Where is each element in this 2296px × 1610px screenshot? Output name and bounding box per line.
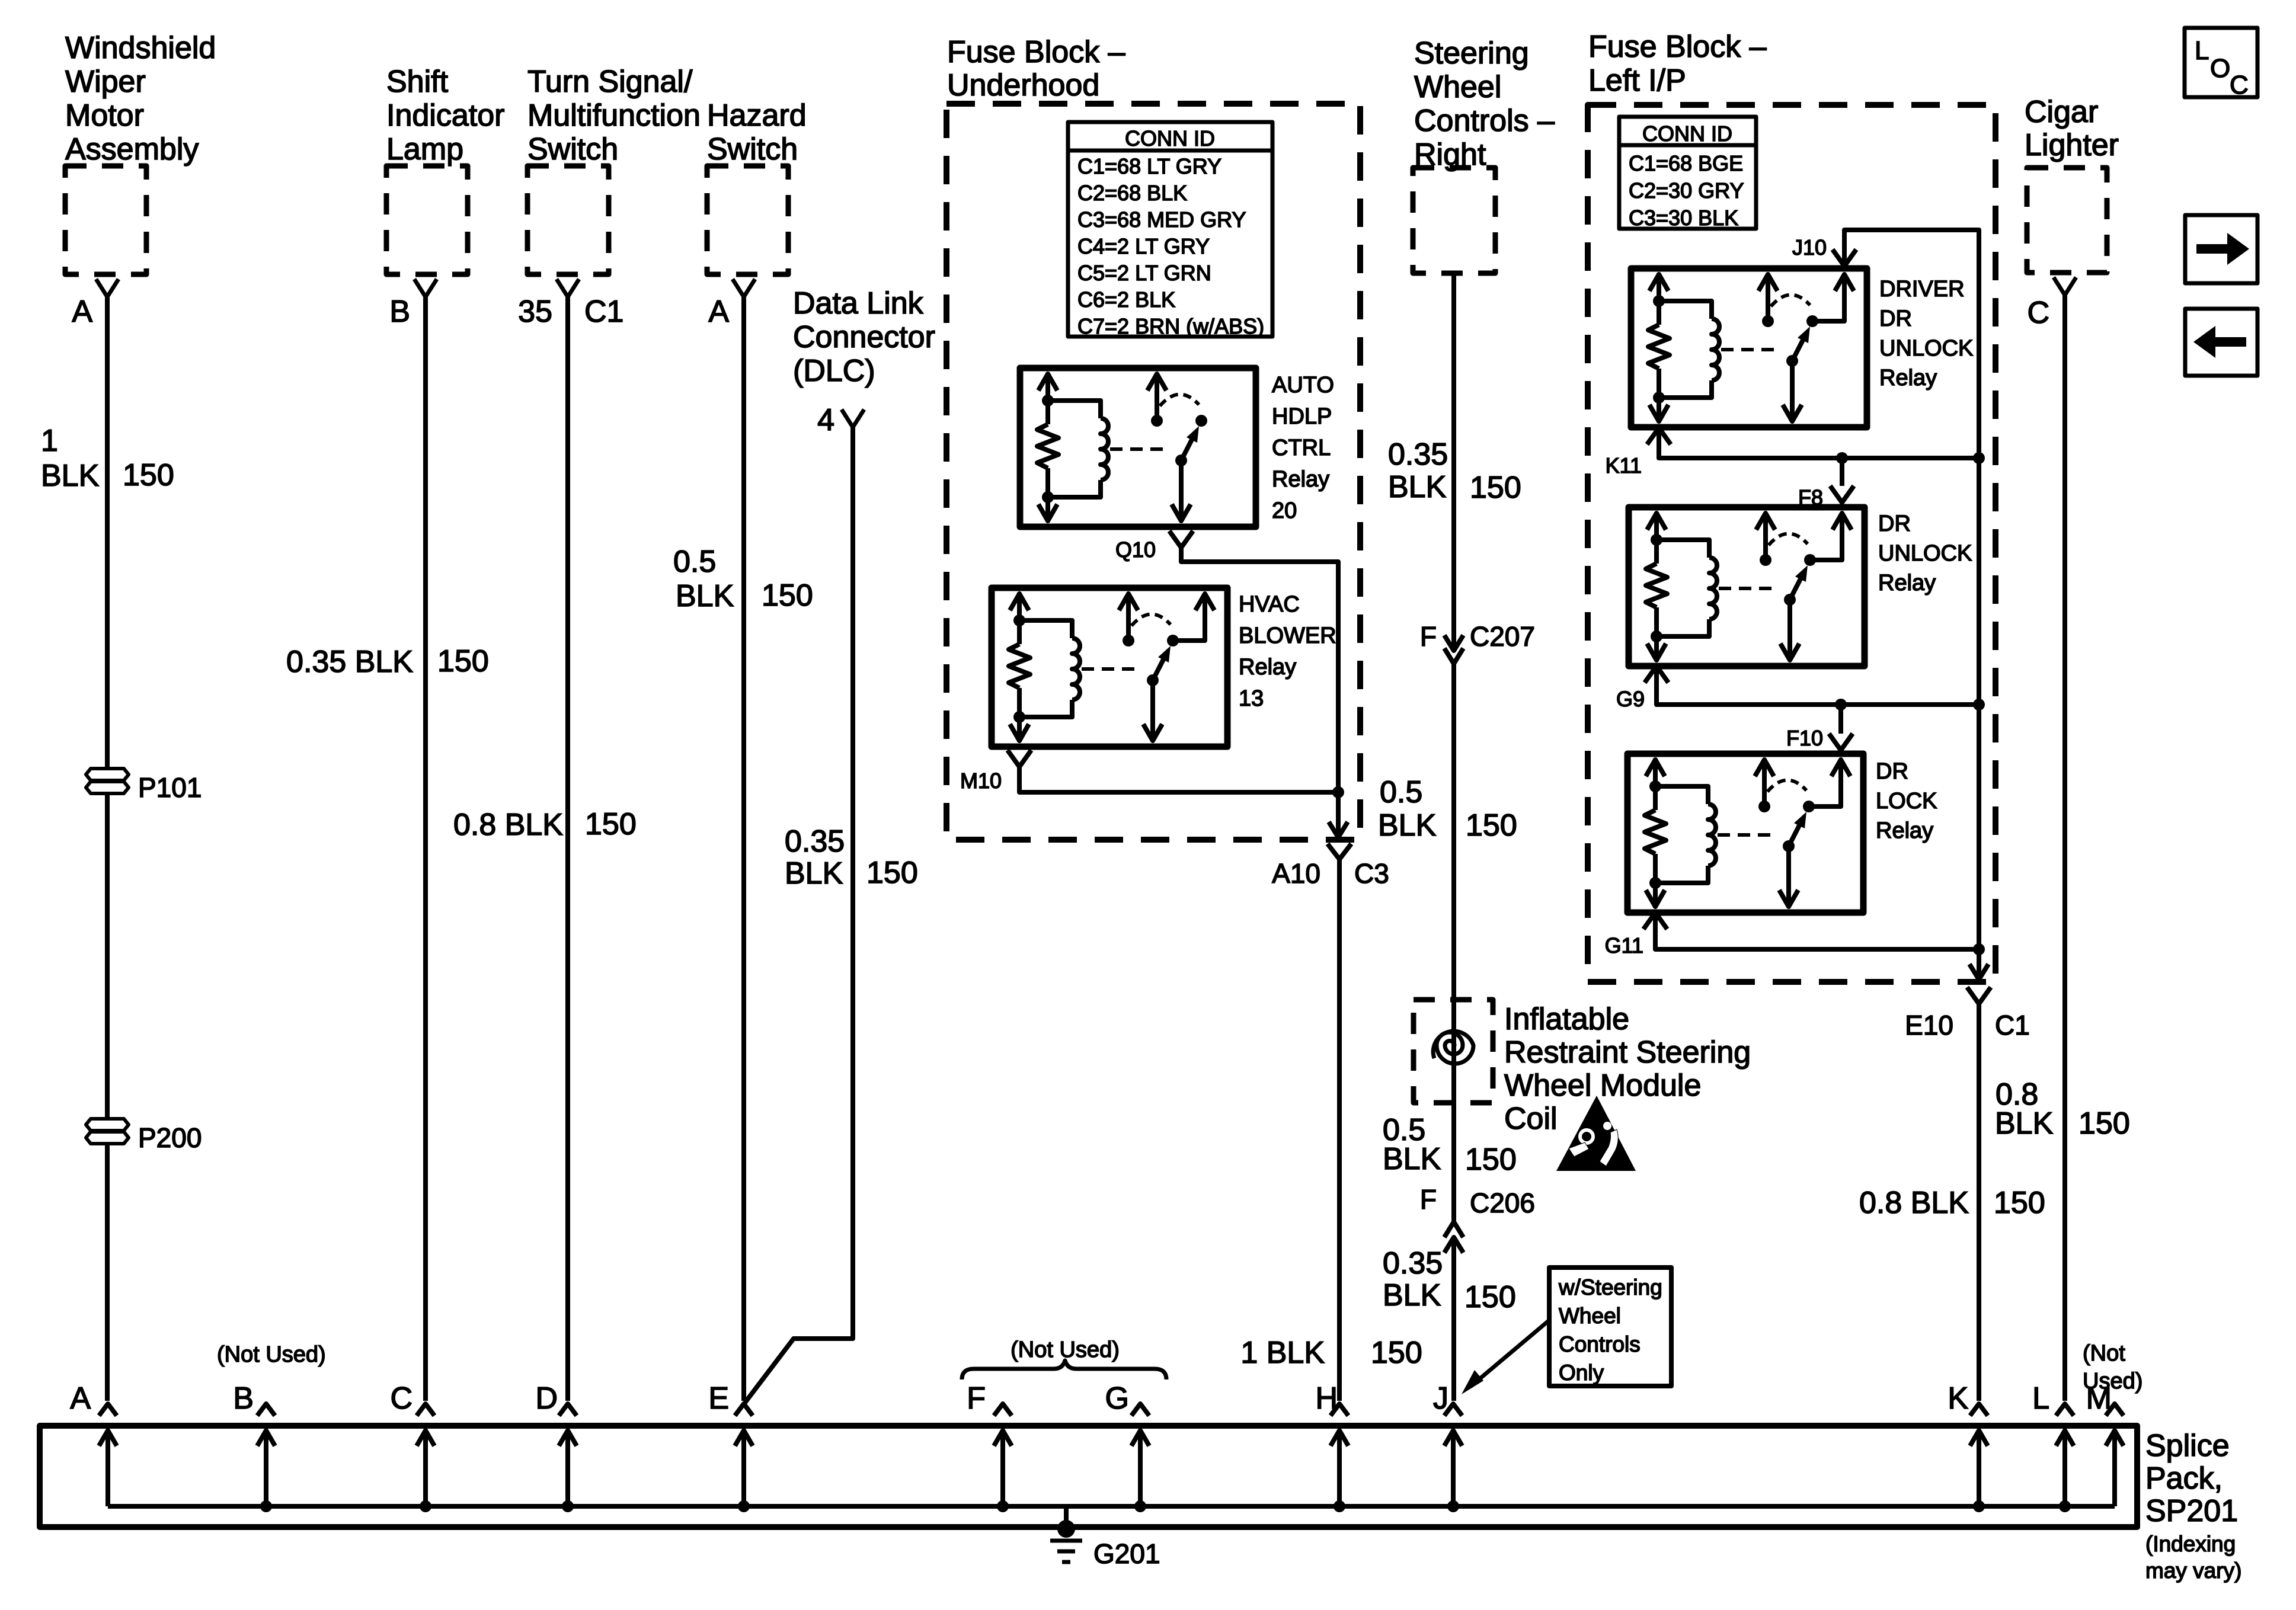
splice terminal J [1444,1404,1462,1416]
svg-text:150: 150 [1464,1280,1516,1314]
svg-text:13: 13 [1239,686,1264,711]
wire M10 to junction [1019,767,1338,792]
svg-text:Used): Used) [2083,1369,2142,1394]
svg-text:C1=68 LT GRY: C1=68 LT GRY [1077,154,1221,178]
svg-text:CONN ID: CONN ID [1125,126,1215,151]
svg-text:Wiper: Wiper [65,65,146,99]
svg-text:Wheel Module: Wheel Module [1504,1068,1701,1103]
connector F C207 [1444,635,1463,651]
svg-text:Inflatable: Inflatable [1504,1002,1629,1036]
wire J lower segment [1451,1237,1456,1401]
svg-text:F: F [1420,1184,1437,1215]
svg-text:C3=30 BLK: C3=30 BLK [1629,206,1738,230]
svg-text:Relay: Relay [1239,655,1296,680]
svg-text:1 BLK: 1 BLK [1240,1336,1325,1370]
svg-text:BLK: BLK [1388,470,1447,504]
connector F10 [1838,705,1843,734]
svg-text:150: 150 [1465,1142,1517,1177]
svg-text:Windshield: Windshield [65,31,216,65]
pin C (cigar) [2054,277,2076,295]
pointer arrow to wire J [1470,1320,1549,1387]
svg-text:may vary): may vary) [2145,1558,2241,1583]
svg-text:(DLC): (DLC) [793,354,875,388]
splice terminal D [559,1404,577,1416]
ground G201 [1064,1506,1069,1523]
connector Q10 [1169,531,1193,548]
connector K11 [1647,428,1671,444]
wire J upper segment [1451,273,1456,649]
connector A10 C3 [1328,844,1351,859]
svg-text:C207: C207 [1470,621,1535,652]
right arrow box [2185,215,2257,283]
svg-text:Relay: Relay [1878,571,1936,596]
svg-text:C1=68 BGE: C1=68 BGE [1629,151,1743,175]
splice pack bus wire [108,1504,2115,1509]
shift indicator lamp box [386,166,468,274]
svg-text:C1: C1 [584,295,623,329]
wire G11 to bus [1655,914,1979,949]
splice terminal M [2106,1404,2124,1416]
svg-text:Q10: Q10 [1115,537,1156,562]
splice terminal L [2056,1404,2074,1416]
svg-text:1: 1 [41,424,58,458]
svg-text:150: 150 [585,807,637,841]
wire J second segment [1451,664,1456,1221]
svg-text:Pack,: Pack, [2145,1461,2223,1496]
svg-text:K11: K11 [1606,453,1642,478]
svg-text:HDLP: HDLP [1272,404,1332,429]
relay: DRIVER DR UNLOCK Relay [1631,268,1867,427]
svg-text:150: 150 [1994,1186,2045,1220]
svg-text:P200: P200 [138,1122,202,1153]
svg-text:150: 150 [866,856,918,890]
svg-text:150: 150 [123,458,174,492]
svg-text:F: F [1420,621,1437,652]
svg-text:M10: M10 [960,769,1002,793]
pin A (hazard) [733,279,755,297]
svg-text:Relay: Relay [1879,366,1937,391]
inline connector P101 [86,769,129,793]
wire to A10 exit [1336,792,1341,837]
svg-text:(Indexing: (Indexing [2145,1532,2236,1556]
wire Q10 to internal node [1181,548,1338,792]
svg-text:4: 4 [817,403,834,437]
svg-text:J: J [1433,1381,1448,1416]
svg-text:Turn Signal/: Turn Signal/ [527,65,693,99]
svg-text:UNLOCK: UNLOCK [1879,336,1973,361]
connector J10 [1833,249,1856,266]
svg-text:DR: DR [1878,511,1911,536]
svg-text:F: F [967,1381,986,1416]
svg-text:DR: DR [1876,759,1908,784]
svg-text:Cigar: Cigar [2025,95,2098,129]
svg-text:Steering: Steering [1414,36,1529,71]
svg-text:K: K [1948,1381,1968,1416]
svg-text:C4=2 LT GRY: C4=2 LT GRY [1077,234,1210,258]
svg-text:D: D [535,1381,558,1416]
cigar lighter box [2027,168,2107,273]
svg-text:Switch: Switch [527,132,618,167]
wire L : cigar to splice L [2062,293,2067,1401]
svg-text:A: A [72,295,92,329]
svg-text:J10: J10 [1792,235,1827,260]
connector F8 [1840,458,1844,486]
svg-text:150: 150 [2078,1106,2130,1141]
fuse block left IP dashed box [1588,105,1996,982]
LOC index box [2185,28,2257,97]
relay: DR UNLOCK Relay [1629,507,1865,666]
svg-text:Restraint Steering: Restraint Steering [1504,1035,1751,1070]
svg-text:G: G [1105,1381,1129,1416]
fuse block underhood dashed box [946,104,1360,840]
svg-text:Shift: Shift [386,65,449,99]
pin A (wiper) [96,279,119,297]
svg-text:BLK: BLK [785,856,843,891]
svg-text:Switch: Switch [707,132,798,167]
svg-text:AUTO: AUTO [1272,373,1334,398]
svg-text:B: B [233,1381,254,1416]
wire J10 to right bus [1844,230,1979,977]
splice terminal A [99,1404,117,1416]
svg-text:Controls –: Controls – [1414,104,1555,138]
svg-text:DRIVER: DRIVER [1879,277,1965,302]
svg-text:O: O [2210,54,2230,83]
splice terminal G [1131,1404,1149,1416]
svg-text:0.5: 0.5 [673,545,716,579]
svg-text:C6=2 BLK: C6=2 BLK [1077,287,1175,312]
wire B : shift to splice C [423,295,428,1401]
svg-text:Left I/P: Left I/P [1588,63,1686,98]
svg-text:0.8 BLK: 0.8 BLK [1859,1186,1969,1220]
svg-text:C1: C1 [1995,1010,2030,1041]
svg-text:G201: G201 [1093,1538,1160,1569]
svg-text:Connector: Connector [793,320,935,354]
wire A : wiper to splice A [105,295,110,1401]
svg-text:DR: DR [1879,306,1912,331]
splice pack SP201 box [40,1426,2137,1527]
svg-text:20: 20 [1272,498,1297,523]
connector G9 [1645,666,1668,683]
wire DLC : dlc down, jog left into splice E [745,425,853,1403]
svg-text:L: L [2195,36,2209,65]
svg-text:P101: P101 [138,772,202,803]
pin B (shift) [414,279,437,297]
svg-text:BLK: BLK [1378,808,1437,843]
svg-text:BLK: BLK [676,579,734,613]
wire E : hazard to splice E [741,295,746,1401]
left arrow box [2185,309,2257,376]
connector M10 [1008,750,1031,767]
windshield wiper motor assembly box [65,166,146,274]
svg-text:(Not Used): (Not Used) [217,1342,326,1367]
svg-text:SP201: SP201 [2145,1494,2238,1528]
svg-text:HVAC: HVAC [1239,592,1300,617]
svg-text:Motor: Motor [65,98,144,133]
splice terminal B [257,1404,275,1416]
svg-text:Indicator: Indicator [386,98,504,133]
svg-text:CTRL: CTRL [1272,436,1331,460]
coil spiral symbol [1433,1031,1473,1064]
conn id table (left IP) [1619,117,1756,229]
svg-text:Lamp: Lamp [386,132,463,167]
svg-text:BLK: BLK [1995,1106,2054,1141]
svg-text:H: H [1315,1381,1338,1416]
wire H : A10 to splice H [1337,859,1342,1401]
svg-text:Coil: Coil [1504,1102,1558,1136]
svg-text:C3: C3 [1354,858,1389,889]
svg-text:Wheel: Wheel [1559,1304,1621,1328]
relay: HVAC BLOWER Relay 13 [992,588,1227,747]
svg-text:(Not: (Not [2083,1341,2125,1366]
wire K11 to bus [1659,429,1979,458]
hazard switch box [707,166,788,274]
svg-text:35: 35 [518,295,552,329]
exit arrow at left IP border [1969,964,1988,980]
svg-text:BLK: BLK [1383,1278,1441,1313]
svg-text:C: C [2027,296,2049,330]
splice terminal H [1331,1404,1348,1416]
svg-text:150: 150 [1371,1336,1422,1370]
svg-text:150: 150 [1466,808,1517,843]
svg-text:Wheel: Wheel [1414,70,1501,104]
svg-text:BLK: BLK [41,459,100,493]
pin 4 (DLC) [842,409,864,427]
splice terminal E [735,1404,753,1416]
svg-text:w/Steering: w/Steering [1558,1275,1662,1299]
svg-text:A: A [70,1381,91,1416]
relay: AUTO HDLP CTRL Relay 20 [1020,368,1256,527]
svg-text:150: 150 [437,644,489,678]
connector F C206 [1444,1222,1463,1237]
svg-text:C2=30 GRY: C2=30 GRY [1629,178,1744,203]
svg-text:Relay: Relay [1272,467,1329,492]
svg-text:B: B [389,295,410,329]
inline connector P200 [86,1119,129,1144]
svg-text:C: C [390,1381,412,1416]
airbag warning triangle [1556,1096,1636,1171]
conn id table (underhood) [1068,122,1272,337]
svg-text:Assembly: Assembly [65,132,199,167]
svg-text:150: 150 [762,578,813,613]
svg-text:Lighter: Lighter [2025,128,2119,162]
svg-text:Fuse Block –: Fuse Block – [1588,30,1767,64]
svg-text:C5=2 LT GRN: C5=2 LT GRN [1077,261,1211,285]
svg-text:LOCK: LOCK [1876,789,1937,814]
svg-text:Relay: Relay [1876,818,1933,843]
inflatable restraint coil dashed box [1414,1000,1493,1103]
wire K : E10 to splice K [1977,1004,1981,1401]
svg-text:F10: F10 [1786,726,1823,750]
connector G11 [1643,913,1667,929]
wire D : turn signal to splice D [565,295,570,1401]
svg-text:G11: G11 [1605,933,1643,958]
svg-text:Hazard: Hazard [707,98,807,133]
svg-text:C3=68 MED GRY: C3=68 MED GRY [1077,207,1246,232]
junction dot (Q10/M10) [1332,786,1344,798]
steering wheel controls box [1413,168,1495,273]
svg-text:BLOWER: BLOWER [1239,623,1336,648]
svg-text:Data Link: Data Link [793,286,924,321]
svg-text:C206: C206 [1470,1188,1535,1218]
svg-text:0.5: 0.5 [1380,775,1422,809]
svg-text:Multifunction: Multifunction [527,98,701,133]
svg-text:E10: E10 [1905,1010,1953,1041]
svg-text:Controls: Controls [1559,1332,1641,1356]
svg-text:E: E [708,1381,729,1416]
splice terminal C [417,1404,434,1416]
pin 35 C1 (turn signal) [557,279,579,297]
splice terminal K [1970,1404,1988,1416]
svg-text:UNLOCK: UNLOCK [1878,541,1972,566]
svg-text:A: A [708,295,729,329]
connector E10 C1 [1967,987,1991,1004]
svg-text:0.35: 0.35 [785,824,845,859]
svg-text:0.35: 0.35 [1388,437,1448,472]
svg-text:C2=68 BLK: C2=68 BLK [1077,181,1187,205]
svg-text:150: 150 [1470,470,1521,505]
svg-text:CONN ID: CONN ID [1642,121,1732,146]
svg-text:0.35: 0.35 [1383,1246,1443,1281]
splice terminal F [994,1404,1012,1416]
svg-text:Splice: Splice [2145,1429,2230,1463]
svg-text:C7=2 BRN (w/ABS): C7=2 BRN (w/ABS) [1077,314,1264,338]
svg-text:A10: A10 [1272,858,1320,889]
svg-text:G9: G9 [1616,687,1645,711]
svg-text:L: L [2032,1381,2049,1416]
relay: DR LOCK Relay [1627,754,1863,913]
wire G9 to bus [1657,667,1979,705]
svg-text:Underhood: Underhood [947,68,1099,103]
svg-text:Only: Only [1559,1361,1604,1385]
svg-text:Fuse Block –: Fuse Block – [947,35,1125,69]
svg-text:0.35 BLK: 0.35 BLK [286,645,413,679]
svg-text:BLK: BLK [1383,1142,1441,1176]
svg-text:C: C [2230,71,2249,100]
svg-text:0.8 BLK: 0.8 BLK [453,808,563,842]
turn signal switch box [527,166,609,274]
w/Steering Wheel Controls Only box [1549,1267,1671,1386]
